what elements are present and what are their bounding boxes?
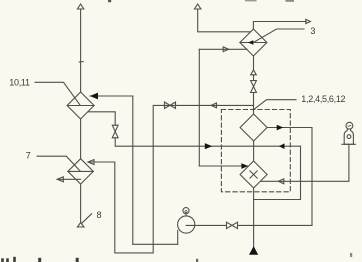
unit diamond lower (with star)	[240, 161, 267, 188]
arrow filled right on mid line	[205, 143, 212, 149]
svg-text:7: 7	[26, 150, 31, 160]
separator 3 (diamond with chord)	[240, 29, 267, 56]
svg-text:3: 3	[310, 26, 315, 36]
cropped text fragment top 1	[108, 0, 111, 2]
valve (vertical bowtie) left	[112, 125, 118, 131]
cropped text fragment top 2	[245, 0, 257, 1]
wire between unit diamonds	[253, 141, 255, 161]
vent arrow top-middle (open up)	[195, 4, 201, 9]
svg-text:8: 8	[97, 210, 102, 220]
arrow open left exhaust at filter 7	[58, 178, 81, 180]
arrow open right at top outlet	[306, 19, 311, 23]
label 8 leader	[82, 214, 92, 223]
wire vertical x=199.3	[198, 49, 200, 166]
wire pump suction riser	[177, 231, 179, 245]
valve (horizontal bowtie) upper	[165, 102, 171, 108]
arrow filled right into lower diamond	[241, 163, 248, 169]
label 10,11 leader	[35, 82, 80, 105]
pump vent small circle	[183, 208, 189, 214]
arrow open left at filter 7 outlet	[88, 160, 94, 165]
gauge body	[344, 129, 353, 144]
svg-text:10,11: 10,11	[9, 77, 30, 87]
svg-text:1,2,4,5,6,12: 1,2,4,5,6,12	[301, 94, 345, 104]
wire filter 7 outlet	[89, 105, 254, 253]
arrow filled left inside separator 3	[248, 40, 254, 45]
cropped text fragment bottom 4	[76, 258, 79, 262]
pump circle	[178, 216, 195, 233]
cropped text fragment bottom 2	[13, 257, 16, 262]
pump discharge line	[186, 224, 312, 226]
wire unit bottom vertical	[253, 188, 255, 247]
dashed enclosure box	[221, 110, 290, 192]
filter 7 (diamond with chord)	[68, 159, 93, 184]
wire right drop to bypass return	[254, 146, 301, 199]
wire valve to unit diamond	[253, 93, 255, 115]
wire separator 3 bottom	[253, 56, 255, 70]
gauge base	[342, 143, 356, 145]
valve (horizontal bowtie) pump discharge	[227, 222, 233, 228]
wire between filters	[80, 119, 82, 159]
wire into filter 10,11 from right	[90, 95, 133, 97]
wire separator 3 top outlet	[253, 22, 306, 30]
gauge head	[346, 122, 353, 129]
tank arrow (filled up triangle)	[250, 247, 257, 254]
arrow open left on line to unit	[211, 103, 217, 108]
arrow filled left into filter 10,11	[90, 93, 98, 100]
wire lower diamond to gauge	[261, 145, 349, 182]
cropped text fragment bottom 5	[196, 259, 198, 262]
cropped text fragment bottom 1	[1, 258, 4, 262]
cropped text fragment bottom right	[350, 253, 352, 257]
filter 10,11 (diamond with chord)	[67, 92, 94, 119]
pump vent stub	[185, 214, 187, 216]
drain symbol 8 (open triangle)	[77, 223, 84, 228]
wire vertical x=132.8	[132, 96, 134, 244]
gauge body inner circle	[347, 135, 351, 139]
cropped text fragment bottom 3	[38, 258, 41, 262]
wire into separator 3 left	[199, 48, 247, 50]
label 3 leader	[253, 29, 304, 43]
vent arrow top-left (open up)	[77, 4, 83, 9]
arrow filled left on mid line	[279, 143, 285, 149]
wire filter 10,11 side outlet	[88, 112, 115, 125]
wire upper diamond outlet right	[267, 128, 312, 226]
wire filter7 to drain	[80, 184, 82, 222]
label 1,2,4,5,6,12 leader	[254, 100, 296, 110]
tick on left vertical	[79, 61, 83, 63]
wire check valve to shutoff	[253, 75, 255, 81]
unit diamond upper	[240, 114, 267, 141]
arrow open left on gauge line	[278, 179, 284, 184]
wire from vent arrow to separator 3	[198, 9, 251, 32]
wire pump suction horizontal	[133, 243, 178, 245]
label 7 leader	[37, 156, 80, 171]
wire into lower unit diamond	[199, 165, 247, 167]
wire from valve down then right	[115, 138, 300, 146]
cropped text fragment top 3	[286, 0, 295, 2]
valve (vertical bowtie) x=253.5	[251, 81, 257, 87]
wire main left vertical top	[80, 9, 82, 92]
arrow open right into separator 3	[223, 47, 229, 52]
arrow filled right on upper outlet	[277, 125, 284, 131]
check valve (open triangle)	[251, 70, 257, 75]
